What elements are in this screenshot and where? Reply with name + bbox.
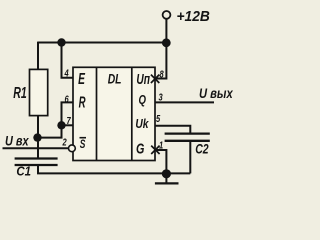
svg-text:3: 3 — [159, 91, 163, 102]
svg-text:4: 4 — [64, 67, 69, 78]
svg-text:G: G — [136, 140, 144, 157]
svg-text:E: E — [78, 70, 86, 88]
svg-text:C2: C2 — [195, 141, 209, 157]
svg-text:Uп: Uп — [136, 70, 150, 88]
svg-text:S: S — [80, 139, 86, 152]
svg-text:DL: DL — [108, 71, 122, 87]
svg-text:6: 6 — [65, 93, 69, 104]
svg-text:Uk: Uk — [135, 117, 149, 131]
svg-text:R: R — [79, 93, 86, 111]
svg-text:R1: R1 — [13, 84, 26, 102]
svg-text:C1: C1 — [16, 164, 31, 179]
svg-text:1: 1 — [159, 139, 163, 150]
svg-text:8: 8 — [160, 68, 164, 79]
svg-text:Q: Q — [139, 94, 147, 108]
svg-text:+12В: +12В — [177, 9, 210, 26]
svg-text:U вх: U вх — [5, 133, 29, 149]
svg-text:U вых: U вых — [199, 86, 233, 101]
svg-text:2: 2 — [62, 136, 67, 147]
